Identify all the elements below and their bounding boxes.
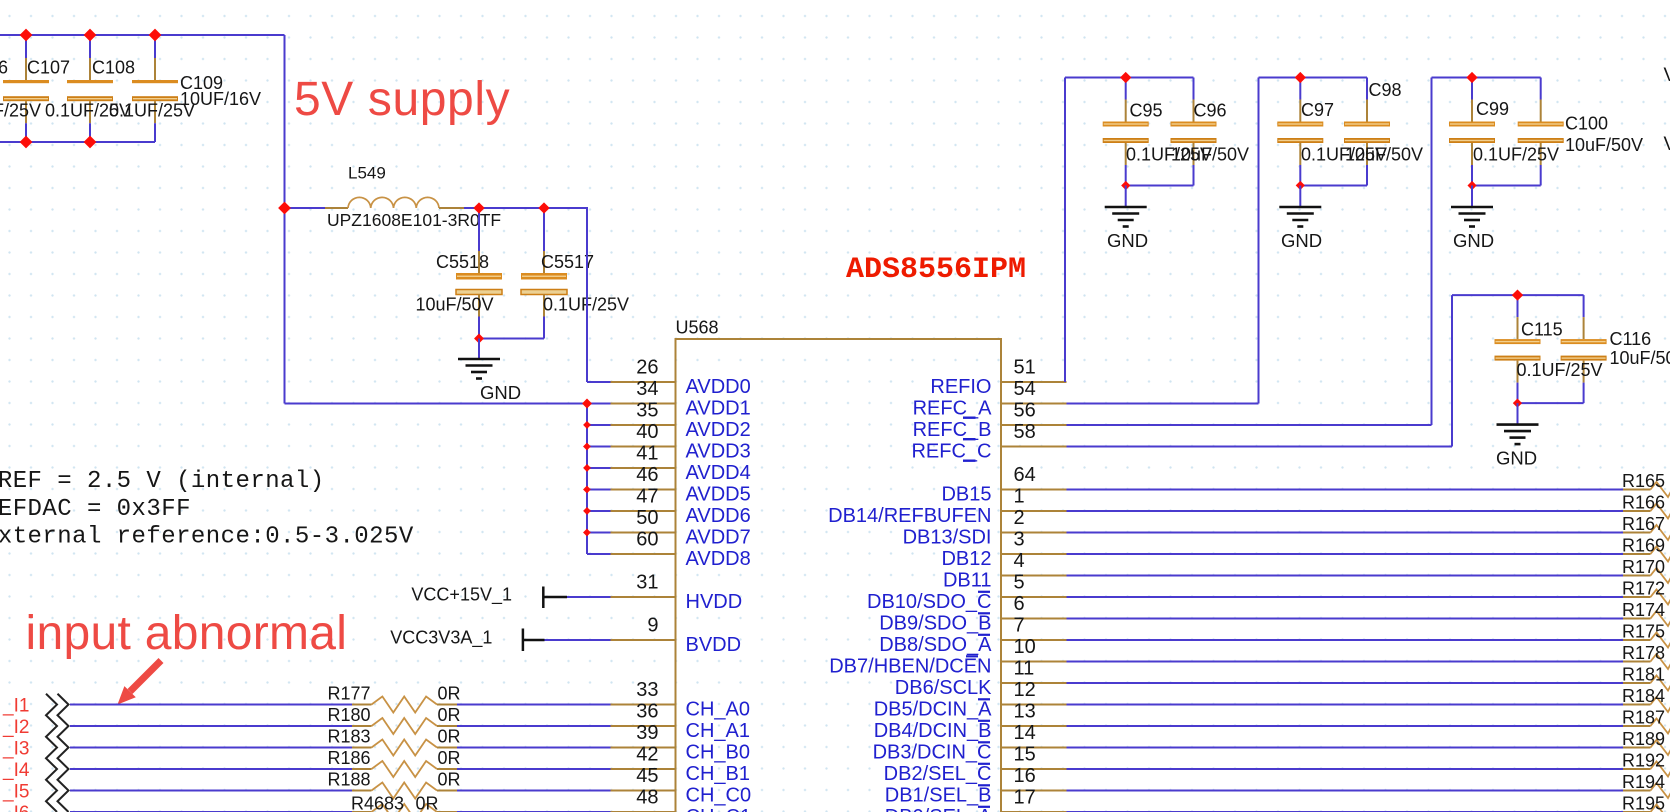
wire REFC_C: [1067, 446, 1453, 448]
wire DB9 to R174: [1067, 618, 1624, 620]
pin 1 DB14/REFBUFEN (right): [828, 485, 1066, 527]
junction C5518/L549 net: [473, 202, 484, 213]
wire stub AVDD5: [587, 489, 611, 491]
power port VCC+15V_1: [411, 585, 567, 609]
capacitor C107: [67, 35, 113, 142]
wire AVDD0 feed vertical: [586, 208, 588, 382]
svg-text:GND: GND: [1453, 230, 1494, 251]
wire C95 to ground: [1125, 186, 1127, 208]
svg-text:DB4/DCIN_B: DB4/DCIN_B: [874, 720, 992, 742]
svg-text:0.1UF/25V: 0.1UF/25V: [1517, 360, 1603, 380]
svg-text:REFC_B: REFC_B: [913, 419, 992, 441]
wire C97 to ground: [1299, 186, 1301, 208]
resistor R183 0R: [327, 727, 460, 756]
pin 12 DB5/DCIN_A (right): [874, 679, 1067, 721]
wire stub AVDD7: [587, 532, 611, 534]
junction C5518 ground node: [474, 334, 484, 344]
annotation red arrow: [118, 661, 162, 705]
wire _I6 to R4683: [70, 811, 352, 812]
svg-text:5V supply: 5V supply: [294, 73, 510, 126]
ground GND (C99/C100): [1451, 207, 1494, 251]
svg-text:R195: R195: [1622, 794, 1665, 812]
pin 31 HVDD (left): [611, 571, 743, 613]
svg-text:C115: C115: [1521, 320, 1563, 340]
svg-text:external reference:0.5-3.025V: external reference:0.5-3.025V: [0, 523, 414, 550]
wire REFC_A: [1067, 403, 1259, 405]
wire REFC_B vertical: [1431, 78, 1433, 426]
junction C97 top: [1295, 72, 1306, 83]
svg-text:R181: R181: [1622, 665, 1665, 685]
ground GND (C95/C96): [1105, 207, 1148, 251]
junction C99 top: [1466, 72, 1477, 83]
wire 5V top bus: [0, 34, 285, 36]
resistor R180 0R: [327, 705, 460, 734]
svg-text:47: 47: [636, 485, 658, 507]
svg-text:3: 3: [1014, 528, 1025, 550]
svg-text:R186: R186: [327, 748, 370, 768]
svg-text:DB12: DB12: [941, 548, 991, 570]
pin 34 AVDD1 (left): [611, 378, 751, 420]
wire _I4 to R186: [70, 768, 352, 770]
svg-text:C107: C107: [27, 58, 70, 78]
pin 36 CH_A1 (left): [611, 700, 750, 742]
capacitor C106 (partially visible): [3, 35, 49, 142]
svg-text:36: 36: [636, 700, 658, 722]
resistor R186 0R: [327, 748, 460, 777]
wire VCC+15V_1 to pin 31: [567, 596, 611, 598]
resistor R174 (clipped at edge): [1622, 600, 1670, 626]
svg-text:_I6: _I6: [2, 803, 29, 812]
svg-text:0R: 0R: [438, 705, 461, 725]
pin 9 BVDD (left): [611, 614, 742, 656]
svg-text:10uF/50V: 10uF/50V: [1171, 145, 1249, 165]
resistor R167 (clipped at edge): [1622, 514, 1670, 540]
off-sheet chevron connectors for _I1.._I6: [46, 694, 69, 812]
svg-text:1: 1: [1014, 485, 1025, 507]
svg-text:R167: R167: [1622, 514, 1665, 534]
junction C108/top bus: [149, 29, 162, 42]
svg-text:AVDD1: AVDD1: [686, 398, 751, 420]
junction AVDD7 tee: [583, 529, 591, 537]
pin 7 DB8/SDO_A (right): [879, 614, 1066, 656]
svg-text:R174: R174: [1622, 600, 1665, 620]
wire REFIO up to C95 group: [1064, 78, 1066, 383]
junction C99 bottom: [1467, 181, 1476, 190]
svg-text:CH_A0: CH_A0: [686, 699, 750, 721]
svg-text:DB8/SDO_A: DB8/SDO_A: [879, 634, 992, 656]
svg-text:UPZ1608E101-3R0TF: UPZ1608E101-3R0TF: [327, 210, 501, 230]
svg-text:R194: R194: [1622, 772, 1665, 792]
wire R4683 to IC pin: [457, 811, 611, 812]
wire _I2 to R180: [70, 725, 352, 727]
capacitor C96: [1171, 78, 1217, 186]
svg-text:_I4: _I4: [2, 760, 30, 781]
wire stub AVDD4: [587, 467, 611, 469]
pin 58 REFC_C (right): [911, 421, 1066, 463]
svg-text:_I5: _I5: [2, 782, 29, 803]
junction C95 top: [1120, 72, 1131, 83]
svg-text:DB10/SDO_C: DB10/SDO_C: [867, 591, 992, 613]
pin 40 AVDD3 (left): [611, 421, 751, 463]
junction AVDD1 tee: [582, 399, 592, 409]
svg-text:R4683: R4683: [351, 794, 404, 812]
svg-text:0.1UF/25V: 0.1UF/25V: [0, 101, 41, 121]
svg-text:V: V: [1664, 134, 1670, 155]
junction C97 bottom: [1296, 181, 1305, 190]
svg-text:R169: R169: [1622, 536, 1665, 556]
resistor R187 (clipped at edge): [1622, 708, 1670, 734]
pin 48 CH_C1 (left): [611, 786, 752, 812]
svg-text:DB7/HBEN/DCEN: DB7/HBEN/DCEN: [829, 656, 991, 678]
svg-text:AVDD6: AVDD6: [686, 505, 751, 527]
wire stub AVDD8: [587, 553, 611, 555]
svg-text:DB15: DB15: [941, 484, 991, 506]
pin 26 AVDD0 (left): [611, 356, 751, 398]
svg-text:11: 11: [1014, 657, 1035, 679]
resistor R189 (clipped at edge): [1622, 729, 1670, 755]
svg-text:0R: 0R: [416, 794, 439, 812]
ground GND (C115/C116): [1496, 425, 1539, 469]
wire 5V feed to AVDD bus: [285, 403, 588, 405]
capacitor C108/C109: [132, 35, 178, 142]
wire DB12 to R169: [1067, 553, 1624, 555]
junction AVDD5 tee: [583, 486, 591, 494]
junction AVDD2 tee: [583, 421, 591, 429]
wire stub AVDD2: [587, 424, 611, 426]
wire C99/C100 top: [1432, 77, 1541, 79]
wire DB4 to R187: [1067, 725, 1624, 727]
wire stub pin 26: [587, 381, 611, 383]
svg-text:AVDD5: AVDD5: [686, 484, 751, 506]
wire DB6 to R181: [1067, 682, 1624, 684]
svg-text:10uF/50V: 10uF/50V: [1610, 348, 1670, 368]
capacitor C5517: [521, 208, 567, 339]
svg-text:4: 4: [1014, 550, 1025, 572]
junction C107/bottom bus: [84, 136, 97, 149]
svg-text:40: 40: [636, 421, 658, 443]
pin 5 DB10/SDO_C (right): [867, 571, 1067, 613]
svg-text:42: 42: [636, 743, 658, 765]
wire L549 input: [285, 207, 326, 209]
pin 13 DB4/DCIN_B (right): [874, 700, 1067, 742]
wire C115 to ground: [1517, 403, 1519, 425]
wire R186 to IC pin: [457, 768, 611, 770]
wire _I3 to R183: [70, 747, 352, 749]
resistor R175 (clipped at edge): [1622, 622, 1670, 648]
svg-text:17: 17: [1014, 786, 1036, 808]
wire 5V vertical drop: [284, 35, 286, 404]
ground GND (C97/C98): [1279, 207, 1322, 251]
note text block: reference info: [0, 468, 414, 550]
resistor R169 (clipped at edge): [1622, 536, 1670, 562]
pin 47 AVDD6 (left): [611, 485, 751, 527]
wire AVDD bus vertical: [586, 404, 588, 555]
svg-text:CH_C1: CH_C1: [686, 806, 752, 812]
svg-text:R192: R192: [1622, 751, 1665, 771]
svg-text:R189: R189: [1622, 729, 1665, 749]
svg-text:5: 5: [1014, 571, 1025, 593]
svg-text:DB6/SCLK: DB6/SCLK: [895, 677, 992, 699]
svg-text:R175: R175: [1622, 622, 1665, 642]
svg-text:C97: C97: [1301, 100, 1334, 120]
svg-text:AVDD2: AVDD2: [686, 419, 751, 441]
svg-text:REFC_A: REFC_A: [913, 398, 993, 420]
svg-text:_I1: _I1: [2, 696, 29, 717]
svg-text:VCC3V3A_1: VCC3V3A_1: [390, 627, 492, 648]
wire stub AVDD6: [587, 510, 611, 512]
wire DB0 to R195: [1067, 811, 1624, 812]
svg-text:16: 16: [1014, 765, 1036, 787]
wire DB10 to R172: [1067, 596, 1624, 598]
svg-text:GND: GND: [480, 382, 521, 403]
pin 39 CH_B0 (left): [611, 722, 750, 764]
svg-text:ADS8556IPM: ADS8556IPM: [846, 253, 1026, 287]
pin 46 AVDD5 (left): [611, 464, 751, 506]
svg-text:CH_B0: CH_B0: [686, 742, 750, 764]
wire R183 to IC pin: [457, 747, 611, 749]
resistor R165 (clipped at edge): [1622, 471, 1670, 497]
resistor R184 (clipped at edge): [1622, 686, 1670, 712]
svg-text:R172: R172: [1622, 579, 1665, 599]
svg-text:31: 31: [636, 571, 658, 593]
resistor R177 0R: [327, 684, 460, 713]
svg-text:14: 14: [1014, 722, 1036, 744]
svg-text:C108: C108: [92, 58, 135, 78]
pin 4 DB11 (right): [943, 550, 1067, 592]
svg-text:34: 34: [636, 378, 658, 400]
capacitor C115: [1495, 295, 1541, 403]
svg-text:R166: R166: [1622, 493, 1665, 513]
svg-text:HVDD: HVDD: [686, 591, 743, 613]
wire REFC_A vertical: [1258, 78, 1260, 404]
junction C115 top: [1512, 289, 1523, 300]
svg-text:C116: C116: [1610, 329, 1652, 349]
resistor R178 (clipped at edge): [1622, 643, 1670, 669]
svg-text:60: 60: [636, 528, 658, 550]
svg-text:35: 35: [636, 399, 658, 421]
wire C99/C100 bottom link: [1472, 185, 1541, 187]
wire _I5 to R188: [70, 790, 352, 792]
svg-text:R178: R178: [1622, 643, 1665, 663]
wire DB2 to R192: [1067, 768, 1624, 770]
svg-text:DB13/SDI: DB13/SDI: [903, 527, 992, 549]
svg-text:_I3: _I3: [2, 739, 29, 760]
svg-text:C5518: C5518: [436, 252, 489, 272]
svg-text:CH_B1: CH_B1: [686, 763, 750, 785]
junction C106/top bus: [20, 29, 33, 42]
junction C107/top bus: [84, 29, 97, 42]
svg-text:input abnormal: input abnormal: [26, 607, 348, 660]
svg-text:0R: 0R: [438, 727, 461, 747]
svg-text:26: 26: [636, 356, 658, 378]
svg-text:DB2/SEL_C: DB2/SEL_C: [884, 763, 992, 785]
resistor R4683 0R: [351, 794, 457, 812]
pin 42 CH_B1 (left): [611, 743, 750, 785]
junction AVDD3 tee: [583, 443, 591, 451]
wire DB8 to R175: [1067, 639, 1624, 641]
capacitor C5518: [456, 208, 502, 339]
junction C106/bottom bus: [20, 136, 33, 149]
svg-text:13: 13: [1014, 700, 1036, 722]
svg-text:C95: C95: [1130, 101, 1163, 121]
svg-text:0R: 0R: [438, 770, 461, 790]
pin 60 AVDD8 (left): [611, 528, 751, 570]
wire DB1 to R194: [1067, 790, 1624, 792]
pin 2 DB13/SDI (right): [903, 507, 1067, 549]
wire L549 output: [464, 207, 588, 209]
svg-text:12: 12: [1014, 679, 1036, 701]
junction AVDD6 tee: [583, 507, 591, 515]
wire C5517 to C5518 ground link: [479, 338, 544, 340]
wire cap bottom bus: [0, 141, 155, 143]
pin 56 REFC_B (right): [913, 399, 1067, 441]
pin 50 AVDD7 (left): [611, 507, 751, 549]
svg-text:46: 46: [636, 464, 658, 486]
svg-text:50: 50: [636, 507, 658, 529]
svg-text:DB0/SEL_A: DB0/SEL_A: [885, 806, 992, 812]
svg-text:C106: C106: [0, 58, 8, 78]
svg-text:R188: R188: [327, 770, 370, 790]
pin 51 REFIO (right): [930, 356, 1066, 398]
wire C95/C96 top: [1065, 77, 1194, 79]
svg-text:R165: R165: [1622, 471, 1665, 491]
pin 16 DB1/SEL_B (right): [885, 765, 1067, 807]
svg-text:AVDD4: AVDD4: [686, 462, 751, 484]
svg-text:AVDD7: AVDD7: [686, 527, 751, 549]
wire to GND symbol: [478, 339, 480, 360]
pin 41 AVDD4 (left): [611, 442, 751, 484]
pin 54 REFC_A (right): [913, 378, 1067, 420]
svg-text:AVDD0: AVDD0: [686, 376, 751, 398]
svg-text:10UF/16V: 10UF/16V: [180, 89, 261, 109]
capacitor C95: [1103, 78, 1149, 186]
svg-text:R177: R177: [327, 684, 370, 704]
ground GND (C5518/C5517): [458, 359, 521, 403]
wire C99 to ground: [1471, 186, 1473, 208]
svg-text:BVDD: BVDD: [686, 634, 742, 656]
svg-text:GND: GND: [1281, 230, 1322, 251]
svg-text:2: 2: [1014, 507, 1025, 529]
svg-text:DB9/SDO_B: DB9/SDO_B: [879, 613, 991, 635]
svg-text:54: 54: [1014, 378, 1036, 400]
junction 5V/L549: [278, 202, 291, 215]
svg-text:VCC+15V_1: VCC+15V_1: [411, 585, 512, 606]
svg-text:DB3/DCIN_C: DB3/DCIN_C: [873, 742, 992, 764]
op-amp/ADC U568 body (ADS8556IPM): [676, 339, 1002, 812]
svg-text:_I2: _I2: [2, 717, 29, 738]
svg-text:REFC_C: REFC_C: [911, 441, 991, 463]
svg-text:DB14/REFBUFEN: DB14/REFBUFEN: [828, 505, 991, 527]
wire DB15 to R165: [1067, 489, 1624, 491]
svg-text:64: 64: [1014, 464, 1036, 486]
svg-text:51: 51: [1014, 356, 1036, 378]
svg-text:GND: GND: [1496, 448, 1537, 469]
svg-text:15: 15: [1014, 743, 1036, 765]
svg-text:C100: C100: [1565, 114, 1608, 134]
svg-text:VREF = 2.5 V (internal): VREF = 2.5 V (internal): [0, 468, 325, 495]
svg-text:10uF/50V: 10uF/50V: [416, 295, 494, 315]
svg-text:10: 10: [1014, 636, 1036, 658]
wire DB3 to R189: [1067, 747, 1624, 749]
pin 10 DB7/HBEN/DCEN (right): [829, 636, 1066, 678]
pin 64 DB15 (right): [941, 464, 1066, 506]
pin 6 DB9/SDO_B (right): [879, 593, 1066, 635]
svg-text:V: V: [1664, 65, 1670, 86]
junction C115 bottom: [1513, 399, 1522, 408]
svg-text:33: 33: [636, 679, 658, 701]
svg-text:R184: R184: [1622, 686, 1665, 706]
svg-text:7: 7: [1014, 614, 1025, 636]
svg-text:AVDD8: AVDD8: [686, 548, 751, 570]
wire C97/C98 top: [1259, 77, 1368, 79]
resistor R192 (clipped at edge): [1622, 751, 1670, 777]
wire REFC_C vertical: [1451, 295, 1453, 446]
pin 3 DB12 (right): [941, 528, 1066, 570]
wire _I1 to R177: [70, 704, 352, 706]
svg-text:56: 56: [1014, 399, 1036, 421]
pin 45 CH_C0 (left): [611, 765, 752, 807]
svg-text:REFIO: REFIO: [930, 376, 991, 398]
junction AVDD4 tee: [583, 464, 591, 472]
svg-text:10uF/50V: 10uF/50V: [1345, 145, 1423, 165]
svg-text:0.1UF/25V: 0.1UF/25V: [1473, 145, 1559, 165]
pin 15 DB2/SEL_C (right): [884, 743, 1067, 785]
capacitor C99: [1449, 78, 1495, 186]
svg-text:C96: C96: [1194, 101, 1227, 121]
resistor R181 (clipped at edge): [1622, 665, 1670, 691]
svg-text:DB11: DB11: [943, 570, 992, 592]
capacitor C100: [1518, 78, 1564, 186]
pin 33 CH_A0 (left): [611, 679, 750, 721]
wire C115/C116 top: [1452, 294, 1584, 296]
svg-text:9: 9: [647, 614, 658, 636]
wire R188 to IC pin: [457, 790, 611, 792]
svg-text:REFDAC = 0x3FF: REFDAC = 0x3FF: [0, 496, 191, 523]
resistor R170 (clipped at edge): [1622, 557, 1670, 583]
svg-text:10uF/50V: 10uF/50V: [1565, 135, 1643, 155]
wire DB14 to R166: [1067, 510, 1624, 512]
svg-text:CH_C0: CH_C0: [686, 785, 752, 807]
capacitor C98: [1344, 78, 1390, 186]
wire VCC3V3A_1 to pin 9: [545, 639, 611, 641]
power port VCC3V3A_1: [390, 627, 544, 651]
svg-text:L549: L549: [348, 164, 386, 183]
svg-text:GND: GND: [1107, 230, 1148, 251]
resistor R172 (clipped at edge): [1622, 579, 1670, 605]
wire DB5 to R184: [1067, 704, 1624, 706]
pin 17 DB0/SEL_A (right): [885, 786, 1067, 812]
svg-text:C98: C98: [1369, 80, 1402, 100]
wire DB13 to R167: [1067, 532, 1624, 534]
wire REFC_B: [1067, 424, 1432, 426]
svg-text:45: 45: [636, 765, 658, 787]
wire C95/C96 bottom link: [1126, 185, 1194, 187]
svg-text:0R: 0R: [438, 748, 461, 768]
svg-text:41: 41: [636, 442, 658, 464]
wire DB7 to R178: [1067, 661, 1624, 663]
pin 35 AVDD2 (left): [611, 399, 751, 441]
svg-text:48: 48: [636, 786, 658, 808]
wire R177 to IC pin: [457, 704, 611, 706]
junction C5517/L549 net: [538, 202, 549, 213]
svg-text:DB5/DCIN_A: DB5/DCIN_A: [874, 699, 992, 721]
svg-text:R170: R170: [1622, 557, 1665, 577]
wire stub AVDD3: [587, 446, 611, 448]
pin 11 DB6/SCLK (right): [895, 657, 1067, 699]
wire C115/C116 bottom link: [1518, 402, 1584, 404]
svg-text:6: 6: [1014, 593, 1025, 615]
capacitor C116: [1561, 295, 1607, 403]
